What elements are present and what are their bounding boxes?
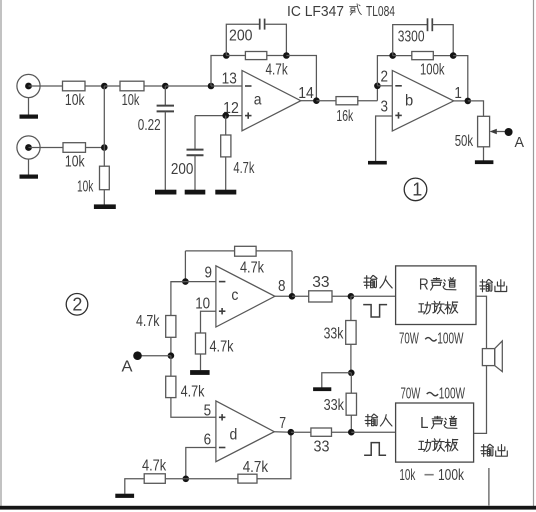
ground wire from NG: [313, 373, 351, 391]
resistor R18 33 bottom: [291, 428, 351, 456]
label 70W-100W L: [401, 385, 466, 402]
node N2: [162, 83, 169, 90]
svg-text:33k: 33k: [324, 326, 345, 343]
R channel board box: [396, 266, 476, 325]
label 70W-100W R: [399, 331, 464, 348]
op-amp U1d: [216, 401, 274, 462]
svg-text:a: a: [254, 92, 262, 109]
circled number 1: [404, 178, 427, 201]
wire b output to node N8: [454, 100, 468, 102]
ground under R10: [190, 370, 210, 375]
capacitor C1 0.22: [138, 86, 174, 190]
wire pot to ground: [483, 147, 485, 161]
label 10k-100k: [399, 467, 464, 484]
capacitor C2 200pF feedback of a: [226, 19, 286, 56]
node D6: [183, 476, 190, 483]
resistor R12 4.7k chain lower: [166, 356, 206, 401]
svg-text:4.7k: 4.7k: [136, 313, 160, 330]
point A dot and wire: [122, 351, 171, 375]
wire FB2 to pin1 node: [453, 56, 468, 101]
wire R12 to pin5: [171, 398, 216, 418]
pin3 wire to ground: [368, 116, 392, 165]
pin12 wire: [195, 115, 242, 117]
op-amp U1c: [216, 266, 275, 327]
svg-text:9: 9: [205, 264, 213, 281]
resistor R13 4.7k to ground: [125, 457, 186, 494]
wire a output to node N6: [301, 100, 317, 102]
svg-text:10k: 10k: [77, 179, 94, 196]
svg-text:7: 7: [279, 415, 286, 432]
svg-text:6: 6: [204, 431, 212, 448]
node N6: [313, 97, 320, 104]
label shuru R 输入: [364, 275, 392, 288]
node N5 on pin12: [222, 112, 229, 119]
wire R board to speaker: [476, 296, 487, 348]
svg-text:5: 5: [204, 403, 212, 420]
node FB2: [450, 52, 457, 59]
svg-text:2: 2: [381, 68, 389, 85]
svg-text:IC LF347: IC LF347: [287, 3, 344, 20]
op-amp U1a: [242, 71, 301, 131]
wire up to node N7: [376, 86, 378, 101]
svg-text:10: 10: [195, 296, 210, 313]
svg-text:c: c: [231, 287, 238, 304]
node N1: [101, 83, 108, 90]
huo 或 in title: [350, 4, 362, 15]
node D7: [288, 429, 295, 436]
wire N7 up to feedback b: [377, 56, 392, 86]
svg-text:16k: 16k: [336, 108, 353, 125]
wire NR1 to R board: [351, 295, 396, 297]
svg-text:3300: 3300: [398, 29, 425, 46]
pin10 wire: [201, 311, 216, 333]
L channel board box: [396, 403, 474, 462]
svg-text:4.7k: 4.7k: [266, 61, 289, 78]
pot wiper arrow and point A: [490, 128, 525, 151]
waveform R negative pulse: [363, 305, 387, 317]
wire speaker to L board: [474, 366, 487, 434]
wire d output to node D7: [274, 431, 291, 434]
wire N7 to op-amp b pin2: [377, 85, 392, 87]
node FA2: [283, 52, 290, 59]
op-amp U1b: [392, 71, 453, 132]
node FA1: [223, 52, 230, 59]
svg-text:0.22: 0.22: [138, 117, 161, 134]
ground under J1: [20, 98, 39, 119]
wire N3 to op-amp a pin13: [211, 85, 242, 87]
wire c output to node C8: [275, 295, 292, 297]
node C9: [182, 278, 189, 285]
ground under R6: [215, 190, 236, 195]
resistor R16 33k: [324, 296, 357, 373]
svg-text:200: 200: [171, 161, 194, 178]
node N8: [465, 98, 472, 105]
node N3: [208, 83, 215, 90]
svg-text:3: 3: [381, 98, 389, 115]
resistor R14 4.7k feedback of d: [186, 432, 291, 483]
svg-text:A: A: [122, 358, 133, 375]
ground under R4: [94, 204, 116, 209]
capacitor C3 200 on pin12: [171, 116, 204, 190]
node NR1: [348, 293, 355, 300]
left border line: [0, 0, 2, 506]
wire R3 to node N4: [86, 147, 105, 149]
wire FA2 to pin14 node: [286, 56, 316, 101]
wire N8 to pot: [468, 101, 484, 116]
wire R2 to node N2: [144, 85, 165, 87]
node N7: [374, 83, 381, 90]
resistor R15 33 top: [292, 274, 351, 302]
potentiometer VR1 50k: [455, 116, 490, 150]
svg-text:4.7k: 4.7k: [181, 384, 206, 401]
node NL1: [348, 429, 355, 436]
ground under J2: [20, 159, 39, 179]
speaker LS1: [482, 341, 502, 372]
node NG: [348, 370, 355, 377]
node C8: [289, 293, 296, 300]
svg-text:b: b: [405, 92, 413, 109]
ground under C3: [185, 190, 206, 195]
label shuchu R 输出: [480, 279, 507, 291]
wire feedback right vertical to node C8: [291, 251, 293, 296]
svg-text:70W: 70W: [401, 385, 421, 402]
svg-text:70W: 70W: [399, 331, 419, 348]
RCA jack J2: [17, 136, 40, 159]
node N4: [101, 144, 108, 151]
svg-text:200: 200: [229, 27, 253, 44]
svg-text:10k: 10k: [122, 92, 140, 109]
resistor R9 4.7k feedback of c: [185, 246, 292, 276]
resistor R10 4.7k on pin10: [195, 333, 234, 370]
ground under C1: [155, 190, 176, 195]
wire N1 to R2: [104, 85, 120, 87]
capacitor C4 feedback of b: [393, 18, 454, 55]
svg-text:R: R: [419, 277, 429, 294]
svg-text:A: A: [515, 135, 525, 151]
wire N3 up to feedback: [211, 56, 226, 87]
svg-text:4.7k: 4.7k: [233, 160, 255, 177]
wire N1 to N4 vertical: [103, 86, 105, 148]
wire R11 to node A2: [170, 337, 172, 355]
svg-text:4.7k: 4.7k: [243, 459, 269, 476]
svg-text:4.7k: 4.7k: [142, 457, 167, 474]
svg-text:1: 1: [454, 85, 462, 102]
bottom border bar: [0, 506, 536, 510]
wire N2 to node N3: [165, 85, 211, 87]
svg-text:14: 14: [298, 85, 314, 102]
svg-text:13: 13: [222, 71, 237, 88]
svg-text:33k: 33k: [324, 397, 345, 414]
wire R1 to node N1: [85, 85, 104, 87]
svg-text:10k: 10k: [65, 154, 85, 171]
svg-text:33: 33: [314, 439, 330, 456]
svg-text:33: 33: [312, 274, 329, 291]
svg-text:100k: 100k: [438, 467, 465, 484]
resistor R4 10k vertical: [77, 166, 109, 195]
svg-text:100k: 100k: [420, 62, 445, 79]
svg-text:d: d: [230, 427, 238, 444]
resistor R11 4.7k chain upper: [136, 313, 176, 337]
resistor R2 10k: [120, 81, 144, 109]
wire R4 to ground: [103, 190, 105, 205]
ground under pot: [475, 160, 494, 164]
svg-text:1: 1: [412, 180, 422, 200]
node FB1: [389, 52, 396, 59]
wire J2 to R3: [29, 147, 64, 149]
chain wire from C9 down: [171, 282, 186, 316]
pin9 wire: [171, 281, 216, 283]
wire feedback left vertical to node C9: [184, 251, 186, 282]
svg-text:10k: 10k: [65, 92, 85, 109]
waveform L positive pulse: [364, 443, 386, 456]
right border line: [533, 0, 535, 506]
resistor R1 10k: [63, 81, 86, 109]
wire J1 to R1: [29, 85, 63, 87]
resistor R6 4.7k on pin12: [221, 116, 255, 190]
svg-text:TL084: TL084: [366, 4, 395, 20]
resistor R3 10k: [63, 143, 86, 171]
node A2: [168, 352, 175, 359]
circled number 2: [66, 294, 88, 316]
svg-text:10k: 10k: [399, 467, 416, 484]
svg-text:100W: 100W: [439, 385, 466, 402]
resistor R5 4.7k feedback of a: [226, 52, 288, 79]
svg-text:4.7k: 4.7k: [210, 338, 235, 355]
svg-text:L: L: [420, 415, 429, 432]
resistor R8 100k feedback of b: [393, 52, 454, 79]
ground left bottom: [115, 494, 134, 498]
svg-text:50k: 50k: [455, 133, 474, 150]
wire below L output: [488, 468, 490, 506]
label shuru L 输入: [365, 414, 392, 426]
resistor R7 16k: [316, 97, 377, 125]
RCA jack J1: [17, 74, 40, 97]
wire N4 to R4: [103, 148, 105, 167]
pin6 wire to node D6: [186, 448, 216, 479]
svg-text:2: 2: [72, 295, 82, 315]
svg-text:100W: 100W: [437, 331, 464, 348]
wire NL1 to L board: [351, 431, 395, 433]
svg-text:8: 8: [278, 278, 286, 295]
label shuchu L 输出: [481, 444, 507, 456]
resistor R17 33k: [324, 373, 357, 432]
svg-text:4.7k: 4.7k: [240, 259, 265, 276]
